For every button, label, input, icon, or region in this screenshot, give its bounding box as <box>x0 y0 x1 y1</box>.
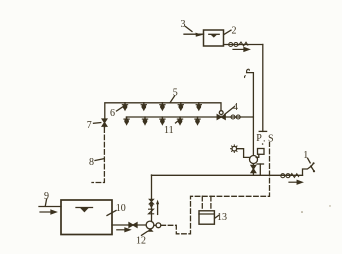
zigzag on main <box>290 174 299 178</box>
svg-text:13: 13 <box>217 212 227 223</box>
dot mark <box>262 143 264 145</box>
check valve circles on branch <box>231 115 240 119</box>
suction pipe <box>112 224 146 226</box>
label 7 <box>87 120 92 131</box>
pump 12 <box>146 221 154 229</box>
svg-text:S: S <box>268 134 274 145</box>
tick from 4 <box>225 107 235 115</box>
label 12 <box>136 236 146 247</box>
tank 2 outlet pipe <box>224 44 263 46</box>
tank 2 inlet pipe <box>184 33 204 35</box>
flow arrow on main <box>289 181 302 184</box>
test tee <box>259 164 261 175</box>
alarm bell <box>231 145 239 153</box>
check valve circles on main <box>281 174 290 178</box>
top sprinkler pipe 5 <box>105 103 221 120</box>
riser check triangle <box>149 204 154 208</box>
pressure switch box <box>258 149 265 155</box>
gauge cap on riser B <box>259 130 266 132</box>
tick from 13 <box>215 216 219 219</box>
fire dept connection 1 <box>303 166 312 175</box>
svg-text:P: P <box>256 133 262 144</box>
controller box 13 <box>199 211 214 224</box>
label P <box>256 133 265 145</box>
label 1 <box>303 150 308 161</box>
tick from 6 <box>117 107 123 111</box>
control wiring dashed <box>161 143 270 234</box>
water level symbol in tank 2 <box>209 33 219 35</box>
svg-text:12: 12 <box>136 236 146 247</box>
flow arrow <box>233 48 249 52</box>
pump outlet stub <box>154 224 156 226</box>
label 13 <box>217 212 227 223</box>
reservoir inlet pipe <box>39 206 61 208</box>
tick from 3 <box>186 27 193 32</box>
svg-text:6: 6 <box>110 108 115 119</box>
svg-text:7: 7 <box>87 120 92 131</box>
label 5 <box>173 88 178 99</box>
signal valve 4: indicator circle <box>219 111 223 115</box>
inlet arrow <box>196 33 203 37</box>
label 2 <box>232 26 237 37</box>
gauge circle after pump <box>156 223 161 228</box>
signal valve 4: bowtie <box>217 115 225 120</box>
tick from 2 <box>224 30 231 34</box>
svg-text:10: 10 <box>116 203 126 214</box>
label 6 <box>110 108 115 119</box>
tick from 9 <box>45 199 46 206</box>
svg-text:2: 2 <box>232 26 237 37</box>
tick from 5 <box>170 96 175 103</box>
main horizontal pipe <box>152 174 303 176</box>
inlet flow arrow <box>40 210 56 214</box>
valve below alarm <box>251 165 256 172</box>
svg-text:.: . <box>263 134 266 145</box>
label 3 <box>181 19 186 30</box>
check valve circles <box>229 43 238 47</box>
valve 7 <box>102 119 107 126</box>
water level symbol in tank 10 <box>76 207 93 209</box>
riser valve <box>149 199 154 204</box>
suction flow arrow <box>117 228 130 231</box>
svg-text:11: 11 <box>164 125 174 136</box>
bell wire <box>238 149 250 158</box>
controller stub left <box>201 196 203 211</box>
paper specks <box>301 211 303 213</box>
label S <box>268 134 274 145</box>
tick from 1 <box>308 158 311 163</box>
svg-text:8: 8 <box>89 157 94 168</box>
riser B from tank 2 <box>262 45 264 132</box>
riser check (Z) <box>149 209 154 214</box>
svg-text:3: 3 <box>181 19 186 30</box>
switch connector <box>256 154 259 157</box>
branch pipe 11 <box>126 117 253 119</box>
riser A lower <box>252 117 254 155</box>
tank T2 (elevated water tank) <box>204 30 224 46</box>
tick from 12 <box>142 232 148 236</box>
sprinkler heads row 2 <box>124 117 129 124</box>
label 8 <box>89 157 94 168</box>
tick from 10 <box>107 211 116 216</box>
drain dashed 8 <box>104 126 106 127</box>
riser A upper <box>247 73 254 117</box>
tick from 11 <box>176 119 181 123</box>
sprinkler heads row 1 <box>122 103 127 110</box>
label 4 <box>233 102 238 113</box>
signal valve 4: stem <box>220 111 222 115</box>
zigzag joint <box>239 42 248 46</box>
controller stub right <box>210 196 212 211</box>
suction valve <box>129 223 137 228</box>
pump riser <box>151 175 153 222</box>
label 11 <box>164 125 174 136</box>
up arrow beside riser <box>157 204 159 215</box>
vent hook on riser A <box>247 69 250 72</box>
tick from 7 <box>94 122 101 125</box>
alarm valve U <box>250 156 258 164</box>
reservoir tank 10 <box>61 200 112 235</box>
label 9 <box>44 191 49 202</box>
tick from 8 <box>95 159 104 161</box>
label 10 <box>116 203 126 214</box>
